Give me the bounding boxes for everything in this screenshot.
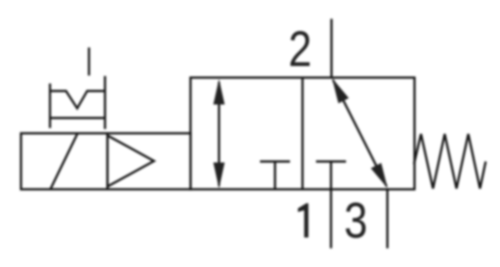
port 3 wire [386,189,388,248]
manual override bottom rail [50,117,105,119]
manual override left cap [49,84,51,129]
svg-text:3: 3 [344,192,367,248]
return spring [414,134,486,189]
blocked port 1 T (right position) [316,160,346,162]
blocked port T (left position) [260,162,290,190]
valve body box (two positions) [191,78,415,190]
port 2 wire [330,19,332,78]
manual override right cap [104,76,106,129]
solenoid diagonal stroke [51,134,78,190]
port label 2 [288,21,311,77]
solenoid box K1 [21,133,191,189]
port label 3 [344,192,367,248]
port 1 wire [330,162,332,249]
flow arrow A (double-headed, left position) [213,79,224,189]
solenoid/pilot divider wire [106,134,108,190]
pilot triangle [108,136,155,187]
manual override top rail with detent notch [50,91,105,108]
port label 1 [298,203,309,237]
flow arrow B (double-headed diagonal, right position) [332,78,388,188]
svg-text:2: 2 [288,21,311,77]
manual override stem [88,48,90,76]
position divider wire [301,78,303,190]
